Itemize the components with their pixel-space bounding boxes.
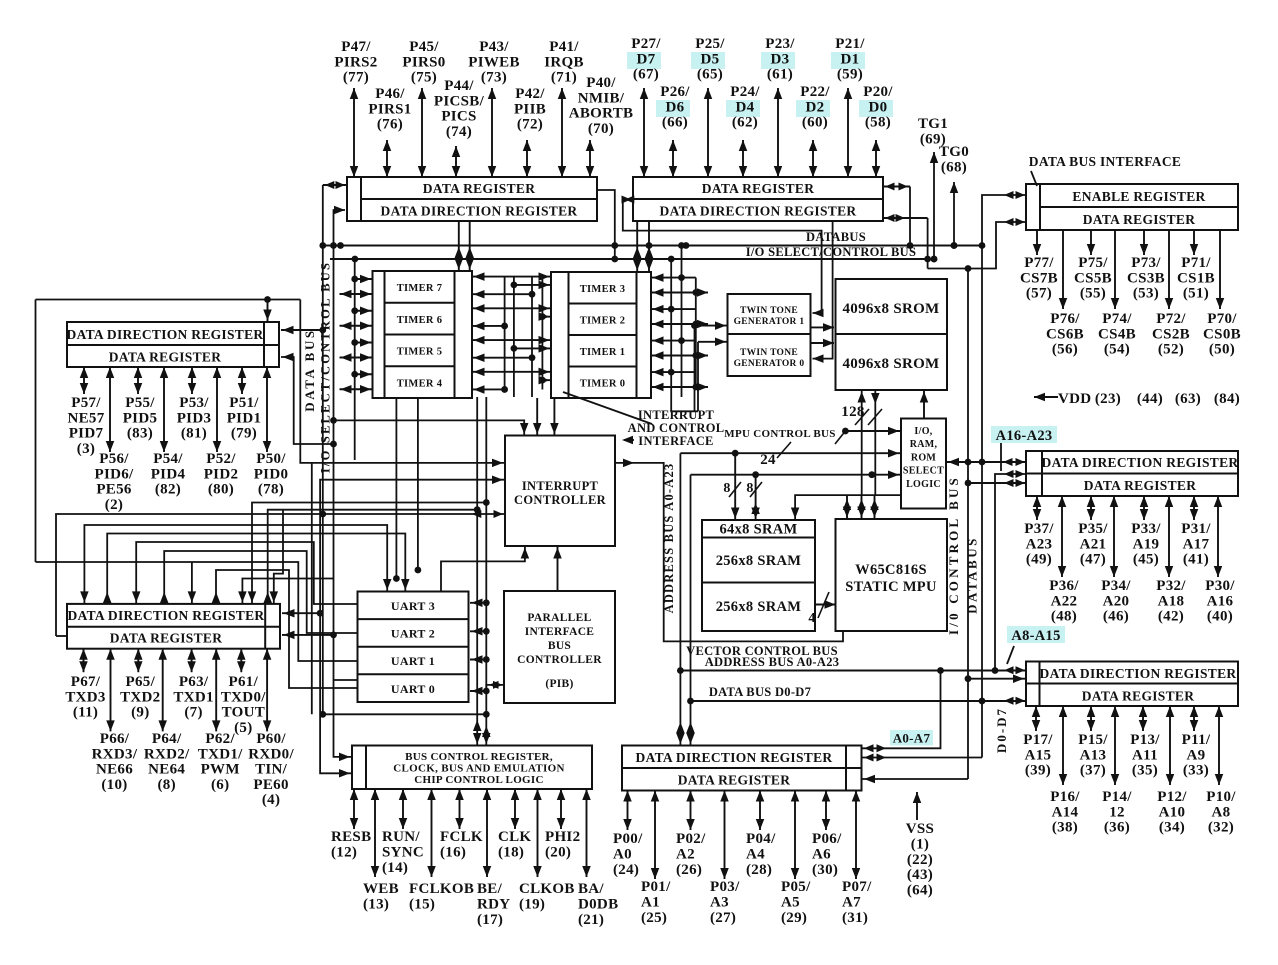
svg-text:(40): (40) xyxy=(1207,609,1233,625)
block: port4 DATA REGISTER / DATA DIRECTION REGISTER (top-left) xyxy=(347,177,597,221)
pins P00/A0 .. P06/A6 (short row) xyxy=(627,791,629,831)
svg-text:(61): (61) xyxy=(767,67,793,83)
svg-text:P11/: P11/ xyxy=(1182,732,1211,748)
svg-text:PID4: PID4 xyxy=(151,466,186,482)
svg-text:RESB: RESB xyxy=(331,829,371,845)
vertical from 24-line down to address bus and port0 block xyxy=(679,453,681,745)
svg-text:CLOCK, BUS AND EMULATION: CLOCK, BUS AND EMULATION xyxy=(393,763,564,775)
wire: I/O control bus vertical into port0 block right edge xyxy=(862,778,968,780)
svg-text:P37/: P37/ xyxy=(1024,521,1054,537)
svg-text:GENERATOR 0: GENERATOR 0 xyxy=(734,359,805,369)
svg-text:P63/: P63/ xyxy=(179,674,209,690)
vertical from 474-line down to data bus line and port0 block xyxy=(690,475,692,746)
svg-text:D7: D7 xyxy=(637,51,656,67)
svg-text:P17/: P17/ xyxy=(1023,732,1053,748)
wire from trunk B along y=420 to interrupt controller top xyxy=(334,420,525,435)
pins P47/P45/P43/P41 (port 4 upper row) with labels xyxy=(353,88,355,177)
svg-text:TWIN TONE: TWIN TONE xyxy=(740,348,798,358)
svg-text:CS6B: CS6B xyxy=(1046,326,1084,342)
nest wire L6: left frame / port6 top to UART1 left xyxy=(36,562,358,661)
bus: second control line into select logic xyxy=(691,474,902,476)
svg-text:PIRS0: PIRS0 xyxy=(402,54,445,70)
svg-text:PARALLEL: PARALLEL xyxy=(527,612,591,624)
wire: data register (DBI) to I/O control vertical xyxy=(968,222,1026,269)
svg-text:(76): (76) xyxy=(377,117,403,133)
nest wire L4: port6 top to UART3 left xyxy=(136,542,357,604)
svg-text:CONTROLLER: CONTROLLER xyxy=(517,654,602,666)
svg-text:(30): (30) xyxy=(812,862,838,878)
svg-text:A6: A6 xyxy=(812,847,831,863)
svg-text:TIMER 7: TIMER 7 xyxy=(397,283,443,294)
wire: port5 right edge lower stub xyxy=(281,357,334,444)
timer3-0 top double arrows from databus xyxy=(636,221,638,272)
nest wire L10: port6 top to UART trunk xyxy=(268,510,478,604)
nest wire L5: port6 top to UART2 left xyxy=(164,551,357,633)
svg-text:A19: A19 xyxy=(1133,536,1160,552)
svg-text:P16/: P16/ xyxy=(1050,789,1080,805)
svg-text:(43): (43) xyxy=(907,867,933,883)
svg-text:(42): (42) xyxy=(1158,609,1184,625)
vertical branch from upper feed down to trunk line xyxy=(311,463,313,714)
svg-text:TXD3: TXD3 xyxy=(65,689,105,705)
svg-text:(44): (44) xyxy=(1137,391,1163,407)
svg-text:A4: A4 xyxy=(746,847,765,863)
svg-text:PID7: PID7 xyxy=(69,426,104,442)
svg-text:A5: A5 xyxy=(781,895,800,911)
svg-text:DATA REGISTER: DATA REGISTER xyxy=(1083,212,1196,227)
svg-text:P27/: P27/ xyxy=(631,36,661,52)
svg-text:(81): (81) xyxy=(181,426,207,442)
svg-text:D6: D6 xyxy=(666,99,685,115)
svg-text:A18: A18 xyxy=(1158,593,1185,609)
timer3-0 right side arrows xyxy=(651,277,696,279)
svg-text:P70/: P70/ xyxy=(1207,311,1237,327)
svg-text:(29): (29) xyxy=(781,910,807,926)
trunk C vertical from I/O select bus xyxy=(354,259,356,460)
pins P27/P25/P23/P21 data bus upper row (D7 D5 D3 D1 highlighted) xyxy=(643,88,645,177)
pins P67..P61 (short) below port6 block xyxy=(83,649,85,673)
wire: select logic right edge to port3 block xyxy=(946,461,1026,463)
svg-text:UART 2: UART 2 xyxy=(391,627,435,641)
svg-text:(53): (53) xyxy=(1133,286,1159,302)
svg-text:P25/: P25/ xyxy=(695,36,725,52)
svg-text:TXD2: TXD2 xyxy=(120,689,160,705)
wire: enable register to databus vertical xyxy=(982,195,1026,758)
block: port6 DATA DIRECTION REGISTER / DATA REGISTER (left-lower) xyxy=(67,604,280,649)
svg-text:IRQB: IRQB xyxy=(544,54,584,70)
svg-text:P64/: P64/ xyxy=(152,731,182,747)
wire: PIB to interrupt controller bottom xyxy=(557,546,559,591)
svg-text:(1): (1) xyxy=(911,836,929,852)
svg-text:P41/: P41/ xyxy=(549,39,579,55)
block: port0 DATA DIRECTION REGISTER / DATA REGISTER (bottom-center) xyxy=(622,746,862,791)
svg-text:P65/: P65/ xyxy=(126,674,156,690)
svg-text:DATA REGISTER: DATA REGISTER xyxy=(702,181,815,196)
svg-text:ROM: ROM xyxy=(911,452,937,463)
svg-text:4096x8 SROM: 4096x8 SROM xyxy=(842,356,939,372)
svg-text:(73): (73) xyxy=(481,70,507,86)
wire: top-right block bottom to twin tone generator 0 xyxy=(813,221,833,359)
block: port3 DATA DIRECTION REGISTER / DATA REGISTER (right-middle) xyxy=(1026,451,1238,496)
svg-text:P15/: P15/ xyxy=(1078,732,1108,748)
bus: DATA BUS D0-D7 horizontal line xyxy=(691,700,1027,702)
wire: top-left register block to trunk A xyxy=(323,184,347,186)
bus: 24-wide control bus line into select logic xyxy=(680,452,901,454)
svg-text:P67/: P67/ xyxy=(71,674,101,690)
svg-text:(2): (2) xyxy=(105,497,123,513)
svg-text:(75): (75) xyxy=(411,70,437,86)
svg-text:SYNC: SYNC xyxy=(382,845,424,861)
svg-text:BUS CONTROL REGISTER,: BUS CONTROL REGISTER, xyxy=(405,751,553,763)
4-bit arrow from SRAM to MPU with slash xyxy=(815,604,836,606)
svg-text:CS5B: CS5B xyxy=(1074,270,1112,286)
label A8-A15 highlighted with leader xyxy=(1007,626,1065,643)
svg-text:P22/: P22/ xyxy=(800,84,830,100)
block: 4096x8 SROM x2 xyxy=(836,279,948,390)
svg-text:UART 0: UART 0 xyxy=(391,682,435,696)
svg-text:(17): (17) xyxy=(477,912,503,928)
svg-text:A20: A20 xyxy=(1103,593,1130,609)
svg-text:P10/: P10/ xyxy=(1206,789,1236,805)
wire: over port5 block with arrow into its top narrow column xyxy=(36,299,301,301)
arrows twin tone generators to SROM xyxy=(811,326,835,328)
svg-text:P00/: P00/ xyxy=(613,831,643,847)
svg-text:STATIC MPU: STATIC MPU xyxy=(845,579,937,595)
svg-text:DATA REGISTER: DATA REGISTER xyxy=(1084,478,1197,493)
svg-text:PID1: PID1 xyxy=(227,410,262,426)
svg-text:I/O SELECT/CONTROL BUS: I/O SELECT/CONTROL BUS xyxy=(319,261,333,473)
wire: top-right block right edge pairs to vertical taps xyxy=(883,186,910,188)
svg-text:P50/: P50/ xyxy=(256,451,286,467)
svg-text:(PIB): (PIB) xyxy=(545,678,573,690)
svg-text:CHIP CONTROL LOGIC: CHIP CONTROL LOGIC xyxy=(414,774,543,786)
svg-text:P01/: P01/ xyxy=(641,879,671,895)
svg-text:P66/: P66/ xyxy=(100,731,130,747)
svg-text:(28): (28) xyxy=(746,862,772,878)
wire: port3 block second stub down to address bus line xyxy=(995,474,1026,671)
svg-text:(47): (47) xyxy=(1080,552,1106,568)
svg-text:PIWEB: PIWEB xyxy=(468,54,520,70)
svg-text:(49): (49) xyxy=(1026,552,1052,568)
nest wire L9: port6 top to UART trunk xyxy=(252,503,486,604)
block: DATA BUS INTERFACE - ENABLE REGISTER / DATA REGISTER xyxy=(1026,184,1238,230)
svg-text:A14: A14 xyxy=(1052,804,1079,820)
svg-text:P47/: P47/ xyxy=(341,39,371,55)
svg-text:(77): (77) xyxy=(343,70,369,86)
svg-text:INTERRUPT: INTERRUPT xyxy=(638,408,715,422)
svg-text:I/O SELECT/CONTROL BUS: I/O SELECT/CONTROL BUS xyxy=(746,245,917,259)
svg-text:PE60: PE60 xyxy=(253,777,288,793)
svg-text:(50): (50) xyxy=(1209,342,1235,358)
svg-text:8: 8 xyxy=(723,481,730,496)
svg-text:DATA DIRECTION REGISTER: DATA DIRECTION REGISTER xyxy=(68,608,265,623)
long horizontal wire from trunk A to UART trunk above bus control block xyxy=(323,713,487,715)
svg-text:(54): (54) xyxy=(1104,342,1130,358)
svg-text:(48): (48) xyxy=(1051,609,1077,625)
svg-text:TXD1: TXD1 xyxy=(173,689,213,705)
svg-text:(57): (57) xyxy=(1026,286,1052,302)
svg-text:SELECT: SELECT xyxy=(903,466,944,477)
svg-text:TIMER 1: TIMER 1 xyxy=(580,347,626,358)
wire: right mesh trunk to twin tone generator inputs xyxy=(671,392,698,411)
timer mesh between timer blocks xyxy=(472,276,551,278)
128-wide bus from SROM bottom with slashes xyxy=(861,390,863,495)
block: bus control register, clock, bus and emulation chip control logic xyxy=(352,746,592,790)
pins P36/A22 .. P30/A16 (long row) xyxy=(1061,496,1063,577)
block: port5 DATA DIRECTION REGISTER / DATA REGISTER (left) xyxy=(67,322,279,367)
VDD pin (23)(44)(63)(84) with left arrow xyxy=(1034,396,1058,398)
svg-text:NE57: NE57 xyxy=(67,410,104,426)
svg-text:(9): (9) xyxy=(131,705,149,721)
svg-text:A11: A11 xyxy=(1132,747,1158,763)
svg-text:P02/: P02/ xyxy=(676,831,706,847)
svg-text:PID3: PID3 xyxy=(177,410,212,426)
pin VSS (1)(22)(43)(64) xyxy=(916,792,918,820)
block: UART 3-0 xyxy=(358,592,469,703)
svg-text:DATA REGISTER: DATA REGISTER xyxy=(109,350,222,365)
svg-text:(55): (55) xyxy=(1080,286,1106,302)
svg-text:(36): (36) xyxy=(1104,820,1130,836)
svg-text:MPU CONTROL BUS: MPU CONTROL BUS xyxy=(724,428,835,440)
nest wire L8: port6 top joins trunk B, UART0 upper entry xyxy=(242,579,333,604)
svg-text:RXD2/: RXD2/ xyxy=(144,746,190,762)
svg-text:(62): (62) xyxy=(732,115,758,131)
svg-text:(10): (10) xyxy=(101,777,127,793)
block: twin tone generator 1 / 0 xyxy=(728,294,811,376)
svg-text:(78): (78) xyxy=(258,482,284,498)
svg-text:(65): (65) xyxy=(697,67,723,83)
wire: port5 block top down to interrupt controller (upper feed) xyxy=(300,300,505,463)
svg-text:(13): (13) xyxy=(363,897,389,913)
svg-text:DATA REGISTER: DATA REGISTER xyxy=(678,773,791,788)
svg-text:P33/: P33/ xyxy=(1131,521,1161,537)
svg-text:(74): (74) xyxy=(446,124,472,140)
svg-text:(22): (22) xyxy=(907,852,933,868)
pins P46/P44/P42/P40 (port 4 lower row) with labels xyxy=(386,140,388,177)
svg-text:RDY: RDY xyxy=(477,897,510,913)
svg-text:A9: A9 xyxy=(1187,747,1206,763)
svg-text:DATA BUS: DATA BUS xyxy=(302,328,317,412)
svg-text:TWIN TONE: TWIN TONE xyxy=(740,306,798,316)
svg-text:A17: A17 xyxy=(1183,536,1210,552)
svg-text:(14): (14) xyxy=(382,860,408,876)
svg-text:(26): (26) xyxy=(676,862,702,878)
svg-text:P76/: P76/ xyxy=(1050,311,1080,327)
svg-text:INTERFACE: INTERFACE xyxy=(525,626,595,638)
right mesh trunks xyxy=(670,259,672,392)
pins P56..P50 (long) below port5 block xyxy=(109,367,111,452)
svg-text:INTERFACE: INTERFACE xyxy=(638,434,713,448)
svg-text:ENABLE REGISTER: ENABLE REGISTER xyxy=(1072,189,1205,204)
svg-text:(32): (32) xyxy=(1208,820,1234,836)
svg-text:DATABUS: DATABUS xyxy=(965,536,980,614)
svg-text:LOGIC: LOGIC xyxy=(906,479,941,490)
svg-text:(39): (39) xyxy=(1025,763,1051,779)
svg-text:NE66: NE66 xyxy=(96,762,133,778)
svg-text:DATA REGISTER: DATA REGISTER xyxy=(110,631,223,646)
svg-text:(18): (18) xyxy=(498,845,524,861)
svg-text:A8: A8 xyxy=(1212,804,1231,820)
svg-text:TXD1/: TXD1/ xyxy=(198,746,243,762)
double arrows into MPU top xyxy=(846,495,848,519)
svg-text:(66): (66) xyxy=(662,115,688,131)
block: 64x8 SRAM / 256x8 SRAM / 256x8 SRAM xyxy=(702,520,815,631)
svg-text:(82): (82) xyxy=(155,482,181,498)
bus: I/O SELECT/CONTROL BUS horizontal line with label xyxy=(330,258,928,260)
svg-text:(41): (41) xyxy=(1183,552,1209,568)
svg-text:P26/: P26/ xyxy=(660,84,690,100)
svg-text:DATA DIRECTION REGISTER: DATA DIRECTION REGISTER xyxy=(381,204,578,219)
svg-text:P72/: P72/ xyxy=(1156,311,1186,327)
nest wire L3: port6 top to UART top xyxy=(107,534,405,604)
block: port2 DATA REGISTER / DATA DIRECTION REGISTER (top-right) xyxy=(633,177,883,221)
svg-text:(72): (72) xyxy=(517,117,543,133)
svg-text:PHI2: PHI2 xyxy=(545,829,580,845)
svg-text:PID5: PID5 xyxy=(123,410,158,426)
svg-text:P04/: P04/ xyxy=(746,831,776,847)
svg-text:PIRS2: PIRS2 xyxy=(334,54,377,70)
svg-text:DATA REGISTER: DATA REGISTER xyxy=(1082,689,1195,704)
pins P66..P60 (long) below port6 block xyxy=(110,649,112,732)
svg-text:256x8 SRAM: 256x8 SRAM xyxy=(716,599,802,615)
pins P17/A15 .. P11/A9 (short row) xyxy=(1035,706,1037,731)
select logic top to SROM bottom arrow xyxy=(923,390,925,419)
svg-text:A16-A23: A16-A23 xyxy=(996,428,1053,444)
svg-text:VDD: VDD xyxy=(1058,391,1091,407)
svg-text:P31/: P31/ xyxy=(1181,521,1211,537)
svg-text:A22: A22 xyxy=(1051,593,1078,609)
svg-text:PID0: PID0 xyxy=(254,466,289,482)
svg-text:A13: A13 xyxy=(1080,747,1107,763)
svg-text:24: 24 xyxy=(760,452,776,468)
svg-text:P43/: P43/ xyxy=(479,39,509,55)
svg-text:P32/: P32/ xyxy=(1156,578,1186,594)
svg-text:TIN/: TIN/ xyxy=(255,762,288,778)
svg-text:NMIB/: NMIB/ xyxy=(578,90,625,106)
svg-text:DATA REGISTER: DATA REGISTER xyxy=(423,181,536,196)
svg-text:P74/: P74/ xyxy=(1102,311,1132,327)
double arrows into bus control block top xyxy=(473,720,482,731)
svg-text:P23/: P23/ xyxy=(765,36,795,52)
svg-text:P77/: P77/ xyxy=(1024,255,1054,271)
svg-text:DATA DIRECTION REGISTER: DATA DIRECTION REGISTER xyxy=(1042,455,1239,470)
svg-text:(60): (60) xyxy=(802,115,828,131)
svg-text:ABORTB: ABORTB xyxy=(569,106,634,122)
svg-text:P57/: P57/ xyxy=(71,395,101,411)
svg-text:(70): (70) xyxy=(588,121,614,137)
svg-text:BA/: BA/ xyxy=(578,881,604,897)
svg-text:P54/: P54/ xyxy=(153,451,183,467)
svg-text:DATA BUS D0-D7: DATA BUS D0-D7 xyxy=(709,685,811,699)
svg-text:TIMER 4: TIMER 4 xyxy=(397,378,443,389)
pins WEB FCLKOB BE/RDY CLKOB BA/D0DB (long row) xyxy=(374,789,376,877)
bus: MPU CONTROL BUS label + line into select logic xyxy=(845,430,901,432)
svg-text:P30/: P30/ xyxy=(1205,578,1235,594)
wire: trunk A into port5 right edge xyxy=(281,329,323,331)
select logic feed line to SRAM top xyxy=(795,495,901,520)
svg-text:DATA BUS INTERFACE: DATA BUS INTERFACE xyxy=(1029,154,1181,169)
svg-text:W65C816S: W65C816S xyxy=(855,562,927,578)
svg-text:(27): (27) xyxy=(710,910,736,926)
svg-text:FCLK: FCLK xyxy=(440,829,483,845)
svg-text:BUS: BUS xyxy=(548,640,571,652)
svg-text:(37): (37) xyxy=(1080,763,1106,779)
trunk B: top-left register block lower stub straight down to bus control block xyxy=(334,210,353,757)
svg-text:(3): (3) xyxy=(77,441,95,457)
svg-text:(4): (4) xyxy=(262,792,280,808)
svg-text:D2: D2 xyxy=(806,99,825,115)
svg-text:(7): (7) xyxy=(184,705,202,721)
svg-text:GENERATOR 1: GENERATOR 1 xyxy=(734,317,805,327)
svg-text:PID2: PID2 xyxy=(204,466,239,482)
svg-text:A0: A0 xyxy=(613,847,632,863)
bus: DATABUS horizontal line with label xyxy=(323,245,982,247)
svg-text:ADDRESS BUS A0-A23: ADDRESS BUS A0-A23 xyxy=(662,463,676,614)
wire: interrupt controller lower feed down to bus control block xyxy=(320,480,505,774)
svg-text:RUN/: RUN/ xyxy=(382,829,420,845)
svg-text:(68): (68) xyxy=(941,159,967,175)
svg-text:D0: D0 xyxy=(869,99,888,115)
svg-text:P46/: P46/ xyxy=(375,86,405,102)
svg-text:D1: D1 xyxy=(841,51,860,67)
wire: databus vertical into port0 block right edge xyxy=(862,757,982,759)
svg-text:DATA DIRECTION REGISTER: DATA DIRECTION REGISTER xyxy=(660,204,857,219)
svg-text:P61/: P61/ xyxy=(229,674,259,690)
svg-text:A23: A23 xyxy=(1026,536,1053,552)
label A0-A7 highlighted xyxy=(890,730,933,746)
block: timers 7-4 with side strips xyxy=(373,271,473,398)
svg-text:DATA DIRECTION REGISTER: DATA DIRECTION REGISTER xyxy=(1040,666,1237,681)
UART0 to PIB double arrow with jog xyxy=(486,685,504,691)
svg-text:(25): (25) xyxy=(641,910,667,926)
svg-text:P03/: P03/ xyxy=(710,879,740,895)
timer mesh trunks xyxy=(504,277,506,390)
svg-text:(59): (59) xyxy=(837,67,863,83)
svg-text:A16: A16 xyxy=(1207,593,1234,609)
svg-text:CS1B: CS1B xyxy=(1177,270,1215,286)
block: parallel interface bus controller (PIB) xyxy=(504,591,615,703)
svg-text:(8): (8) xyxy=(158,777,176,793)
pins P01/A1 .. P07/A7 (long row) xyxy=(654,791,656,880)
UART right edge stubs from trunk xyxy=(470,602,486,604)
block: I/O RAM ROM select logic xyxy=(901,419,946,509)
svg-text:TIMER 6: TIMER 6 xyxy=(397,315,443,326)
svg-text:NE64: NE64 xyxy=(148,762,185,778)
svg-text:CLKOB: CLKOB xyxy=(519,881,575,897)
svg-text:RXD3/: RXD3/ xyxy=(92,746,138,762)
svg-text:TOUT: TOUT xyxy=(222,705,265,721)
svg-text:UART 1: UART 1 xyxy=(391,654,435,668)
svg-text:CS7B: CS7B xyxy=(1020,270,1058,286)
svg-text:P06/: P06/ xyxy=(812,831,842,847)
svg-text:DATABUS: DATABUS xyxy=(806,230,866,244)
svg-text:A0-A7: A0-A7 xyxy=(893,731,931,746)
svg-text:A1: A1 xyxy=(641,895,660,911)
svg-text:PE56: PE56 xyxy=(96,482,132,498)
svg-text:P44/: P44/ xyxy=(444,78,474,94)
svg-text:P07/: P07/ xyxy=(842,879,872,895)
svg-text:P14/: P14/ xyxy=(1102,789,1132,805)
timer4 bottom stub lines xyxy=(395,398,397,579)
svg-text:D4: D4 xyxy=(736,99,755,115)
svg-text:VSS: VSS xyxy=(906,821,934,837)
svg-text:(12): (12) xyxy=(331,845,357,861)
svg-text:(67): (67) xyxy=(633,67,659,83)
svg-text:TIMER 3: TIMER 3 xyxy=(580,284,626,295)
pins P37/A23 .. P31/A17 (short row) xyxy=(1036,496,1038,520)
svg-text:A3: A3 xyxy=(710,895,729,911)
svg-text:(58): (58) xyxy=(865,115,891,131)
